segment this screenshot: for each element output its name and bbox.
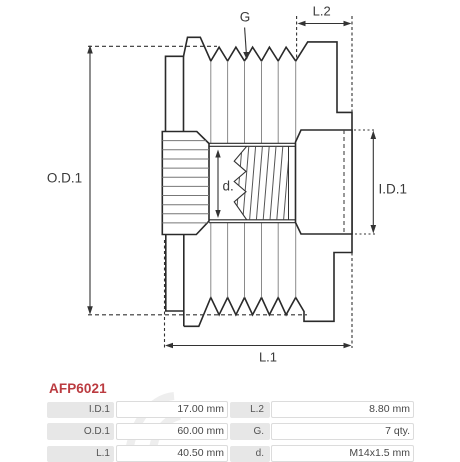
svg-text:I.D.1: I.D.1 [379, 182, 408, 197]
dimension O.D.1 [88, 46, 307, 315]
dimension d. (bore) [217, 156, 219, 211]
groove bottom lines (bottom half) [211, 223, 296, 298]
svg-text:L.2: L.2 [313, 4, 331, 19]
watermark swoosh [128, 396, 180, 462]
dimension I.D.1 [354, 130, 376, 234]
pulley rear flange faces (left) [166, 56, 184, 326]
thread end line [288, 146, 290, 220]
hidden bore line in boss [343, 130, 345, 234]
dimension L.2 [297, 16, 352, 348]
thread break line [234, 146, 247, 220]
svg-text:O.D.1: O.D.1 [47, 171, 82, 186]
bore edges (double lines) [209, 143, 296, 222]
boss (nose cylinder) [296, 130, 353, 234]
svg-text:L.1: L.1 [259, 350, 277, 365]
spec table row 3 [47, 446, 114, 462]
svg-text:d.: d. [223, 179, 234, 194]
dimension L.1 [165, 240, 351, 349]
pulley outer profile: rib, belt grooves, front plate [184, 37, 353, 326]
groove bottom lines (top half) [211, 61, 296, 143]
hub (hatched) [162, 132, 209, 235]
spec table row 2 [47, 423, 114, 440]
svg-text:G: G [240, 10, 251, 25]
part number heading [49, 381, 107, 396]
spec table row 1 [47, 402, 114, 418]
